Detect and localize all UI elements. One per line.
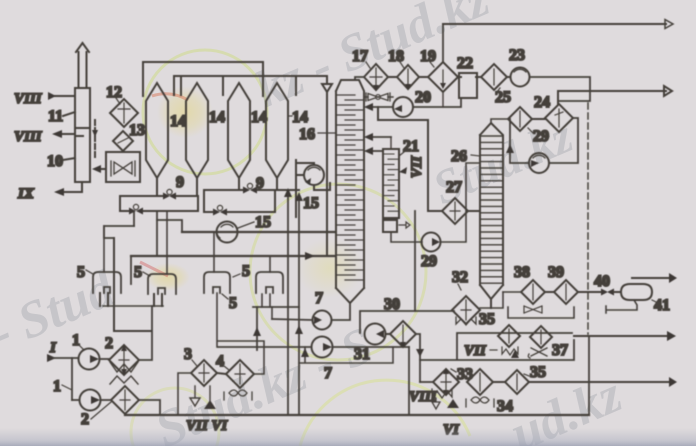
pump 7a suction [272,319,312,320]
wire 17-18 [388,76,397,78]
svg-text:41: 41 [654,297,670,314]
tick 21 [399,152,404,156]
svg-text:IX: IX [17,186,35,202]
exchanger 33 diamond [433,369,459,395]
top product arrow [443,23,666,25]
tick 2b [91,402,111,419]
row VI wire [420,381,433,383]
tick 5a [86,270,93,274]
arrowhead on lower bus [305,252,315,260]
wire 21 bottom to pump 29c [391,232,422,242]
product arrow from 41 top [632,277,670,279]
svg-text:14: 14 [209,109,225,126]
tick 5d [222,294,228,299]
wire to exchanger 38 [503,291,521,293]
exchanger 34 diamond [467,369,493,395]
adsorber 14b [186,83,208,178]
wire bus to exchanger 27 [428,210,442,212]
leg down from 5a to heavy stub [114,238,151,331]
svg-text:21: 21 [403,138,419,155]
valve 1-inf-1 under 34 [466,397,494,407]
tick 11 to vessel [63,112,75,116]
wire 39-40 [578,291,601,293]
separator 22 box [459,73,477,98]
riser bus to unit VII box [588,336,590,415]
wire 18-19 [419,76,428,78]
unit VII product arrow [574,335,668,337]
exchanger 35b diamond [505,370,529,394]
tick 4 [224,366,229,370]
zigzag between 2a and 2b [110,362,138,384]
branch pump 1a suction down [71,358,73,400]
stream I inlet arrow [47,354,56,362]
header B drops [174,76,296,95]
pump 15a circle [304,165,324,185]
wire 31-30 [386,333,391,335]
exchanger 18 diamond [397,65,419,89]
exchanger 39 diamond [554,280,578,304]
svg-text:15: 15 [303,195,319,212]
furnace 5a [93,272,121,293]
column 21 shell [383,149,399,218]
furnace 5a feed [103,226,105,272]
tick 1b [62,385,72,390]
vertical drain x415 [414,211,416,311]
exchanger 4 diamond [226,360,254,388]
svg-text:35: 35 [479,311,495,328]
tick 3 [192,360,197,366]
column 16 trays [336,95,364,280]
tick 19 [430,62,434,67]
header A drop to column 14d [262,62,264,96]
svg-text:1: 1 [53,378,61,395]
pump 20 discharge into 16 [369,106,393,108]
svg-text:VIII: VIII [14,91,43,107]
exchanger 30 diamond [390,321,416,347]
pump 29b suction wire [510,119,529,163]
wire 22-25 [476,76,481,78]
svg-text:18: 18 [388,48,404,65]
exchanger 32 diamond [452,296,480,324]
stream VIII outlet arrow [58,133,75,135]
exchanger 3 diamond [191,360,217,386]
bottom scan band [0,428,696,446]
vessel 41 [621,284,652,300]
svg-text:12: 12 [106,84,122,101]
svg-text:31: 31 [354,346,370,363]
svg-text:15: 15 [255,214,271,231]
flag symbol beside reboiler [399,222,410,228]
svg-text:I: I [49,340,57,356]
valve on manifold 9a bottom [129,208,143,215]
tick 5b [143,272,150,276]
valve on manifold 9a top [163,193,176,200]
column 26 shell [480,123,503,308]
wire 1b-2b [101,399,112,401]
column 21 reboiler box [383,220,397,232]
pump 15a piping [296,160,330,217]
wire 26 bottom to 32 and riser to 38 [480,292,503,308]
apparatus 13 small diamond [113,131,133,151]
furnace 5c [204,272,230,293]
pump 23 [511,68,530,87]
svg-text:23: 23 [509,47,525,64]
long bus lower into 16 [131,255,334,257]
tick 29a [528,128,533,133]
riser 24 to side arrow [557,91,559,104]
tick 17 [366,62,370,68]
svg-text:32: 32 [452,269,468,286]
wire 34-35b [493,381,505,383]
furnace 5c feed [213,232,215,272]
tick 25 [497,88,500,92]
svg-text:5: 5 [134,264,142,281]
drain hook under 41 [606,300,637,313]
row VI product arrow [529,381,670,383]
furnace manifold line left [103,305,163,307]
bracket with valve under 38-39 [508,307,574,318]
exchanger 2b diamond [111,386,139,414]
fan bowtie inside box [111,161,135,176]
pump 7b [312,337,333,358]
arrow from box 13 into vessel [97,168,106,170]
tick 33 [451,369,456,372]
wire 38-39 [545,291,554,293]
tick 15b [238,222,254,228]
drop from manifold 9a to jog [133,211,135,226]
tick 18 [400,62,404,68]
tick 10 to vessel [63,158,75,160]
feed wire to 3 [178,373,191,415]
drop x272 to pump 7a suction [271,307,273,319]
svg-text:19: 19 [420,48,436,65]
svg-text:22: 22 [457,55,473,72]
furnace 5a legs [100,293,108,306]
tick 26 [471,155,480,156]
exchanger 17 diamond [364,64,388,90]
wire 3-4 [217,373,226,374]
riser from 19 to top product arrow [442,24,444,62]
riser from 2a to furnace stub [139,306,152,360]
wire 21 top to 16 [390,137,392,149]
pump 15a impeller [308,167,320,170]
furnace return header [253,306,299,308]
pump 20 suction from 22 [413,98,461,107]
recycle line into column 16 mid [369,150,383,152]
svg-text:14: 14 [251,109,267,126]
svg-text:9: 9 [176,174,184,191]
stream IX outlet [60,182,82,192]
svg-text:5: 5 [242,263,250,280]
svg-text:VII: VII [464,343,487,359]
svg-text:2: 2 [105,335,113,352]
tick 1a [79,345,84,350]
exchanger 27 diamond [442,198,468,224]
furnace 5c leg [217,293,264,374]
feed arrow into 21 [399,167,407,174]
filled vent arrow under 33 [447,398,459,408]
drop to bottom bus x409 [408,347,410,415]
stair pipe from manifold to bus [157,220,182,232]
wire 27 to column 26 [468,210,480,212]
header A drop to column 14a [142,62,144,96]
wire 30 to drop x420 [416,334,420,382]
adsorber 14c [228,83,250,178]
open drain arrow under 3 [190,386,200,406]
column 16 shell [336,80,364,303]
logo stain top-left [143,50,267,174]
tick 16 [318,132,336,134]
svg-text:11: 11 [48,108,63,125]
valve on pump 20 suction [366,93,390,101]
furnace 5b legs [154,294,162,306]
svg-text:4: 4 [216,353,224,370]
manifold 9a frame [120,178,198,211]
pump 15b impeller [217,224,233,238]
wire 19-22 [458,76,461,78]
svg-text:24: 24 [534,94,550,111]
wire 1a-2a [100,358,110,360]
header A top [143,61,263,63]
dashed riser beside vessel [94,120,96,158]
pump 7b suction header [218,346,311,348]
side product arrow [558,90,666,92]
exchanger 36b diamond [530,326,552,348]
wire 26 top to 29a [491,119,508,123]
exchanger 36a diamond [498,325,520,347]
svg-text:29: 29 [421,253,437,270]
apparatus 13 fan box [106,152,140,182]
return riser with up arrow b [298,200,300,415]
logo stain center [250,184,426,360]
exchanger 25 diamond [481,64,507,90]
zigzag under 32 [456,317,476,325]
furnace 5b feed [166,211,168,274]
valve 1-inf-1 under 4 [224,390,252,400]
svg-text:40: 40 [594,273,610,290]
svg-text:5: 5 [229,295,237,312]
utility line under pumps 7 [299,347,393,363]
wire 24 right loop to pump 29b [549,118,578,163]
return riser with up arrow a [287,196,289,415]
manifold 9b frame [204,178,299,212]
valve line from 16 top [364,96,393,98]
furnace 5b [148,274,176,294]
bus riser from pump 20 area [378,107,428,211]
exchanger 29a diamond [508,107,532,131]
vessel 10/11 body [75,88,90,182]
svg-text:35: 35 [530,364,546,381]
open drain arrow under 33 [432,398,440,409]
exchanger 38 diamond [521,280,545,304]
pump 7b discharge [333,346,410,348]
svg-text:14: 14 [170,113,186,130]
furnace 5d legs [262,294,270,307]
adsorber 14a [146,83,168,178]
exchanger 2a diamond [109,345,139,375]
pump 29c [422,233,441,252]
svg-text:20: 20 [415,89,431,106]
drop leg left of lower bus [130,256,132,284]
svg-text:3: 3 [184,346,192,363]
zigzag under 33 [432,389,452,398]
svg-text:5: 5 [77,264,85,281]
header B top [174,75,327,77]
tick 32 [458,284,461,290]
valve on manifold 9b top [243,187,257,194]
svg-text:29: 29 [533,128,549,145]
svg-text:34: 34 [497,398,513,415]
pump 29b [529,153,549,173]
tick 12 [116,98,120,104]
dashed section boundary [587,103,589,334]
svg-text:1: 1 [72,332,80,349]
line 16 top to exchanger train [355,77,364,80]
pump 7a discharge to 16 bottoms [332,303,351,320]
wire 23 to right and down to 24 loop [530,77,591,101]
wire to pump 1b [72,399,80,401]
pump 15b circle [217,222,238,243]
valve symbol in bracket [524,306,542,313]
svg-text:37: 37 [552,342,568,359]
pump 31 [365,324,386,345]
tick VII [490,349,497,351]
tick 14d [288,115,292,117]
tick 5c [233,274,240,277]
recycle line into column 16 upper [369,136,391,138]
furnace 5d [256,272,283,293]
scissors valve under 36b [528,348,547,358]
pump 29c discharge riser [441,163,481,242]
drop from 19 to suction [442,92,444,107]
filled arrow under 3-4 [204,386,216,409]
valve on manifold 9b bottom [213,209,227,216]
svg-text:16: 16 [299,126,315,143]
tick 35b [524,374,529,376]
wire 25-23 [507,76,510,78]
svg-text:10: 10 [47,153,63,170]
svg-text:33: 33 [457,366,473,383]
logo stain bottom [300,380,470,446]
tick 41 [652,300,656,302]
wire 29a-24 [532,118,545,120]
svg-text:9: 9 [256,175,264,192]
svg-text:39: 39 [548,264,564,281]
zigzag and arrow under 36a [502,347,518,355]
furnace 5d feed [269,256,271,272]
stream VIII inlet arrow [53,95,75,97]
svg-text:13: 13 [129,122,145,139]
bottom bus VI [125,414,589,416]
svg-text:VIII: VIII [409,389,438,405]
valve 40 [601,289,614,296]
drop from manifold 9a to lower bus [156,211,158,256]
column 26 trays [480,136,503,283]
svg-text:VIII: VIII [14,129,43,145]
riser x257 with up arrow [256,307,258,350]
exchanger 12 internals [118,103,130,123]
exchanger 24 diamond [545,104,573,132]
svg-text:14: 14 [292,109,308,126]
vessel 10/11 chimney with vent arrow [76,43,89,88]
pump 7a [313,311,332,330]
vessel internal tick [75,128,90,136]
svg-text:VII: VII [409,155,425,178]
svg-text:27: 27 [446,179,462,196]
pump 1b [80,390,101,411]
wire 2b to bottom bus [139,400,160,415]
funnel to column 16 [322,76,332,255]
column 21 trays [383,154,399,211]
long bus to pump 15b [182,231,334,233]
pump 1a [79,349,100,370]
svg-text:2: 2 [81,411,89,428]
svg-text:26: 26 [451,148,467,165]
heat exchanger 12 diamond [110,99,138,127]
jog pipe left [104,226,134,238]
header to pump 31 [360,311,454,333]
pump 20 [393,97,413,117]
svg-text:38: 38 [514,264,530,281]
unit VII box [420,333,574,360]
adsorber 14d [266,83,288,178]
exchanger 19 diamond [428,62,458,92]
svg-text:7: 7 [324,365,332,382]
svg-text:7: 7 [315,290,323,307]
